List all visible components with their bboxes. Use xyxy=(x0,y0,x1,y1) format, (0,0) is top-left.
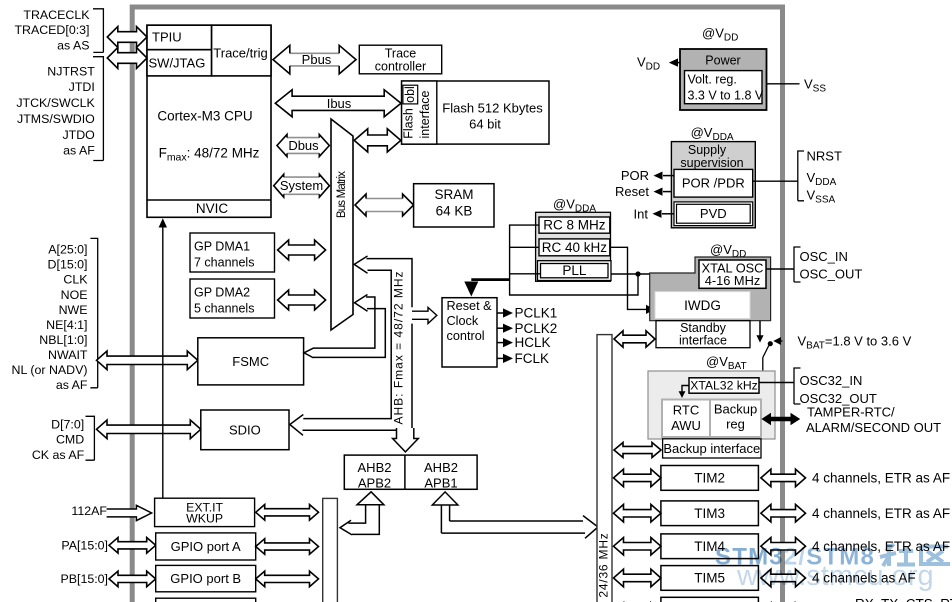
bracket NRST xyxy=(798,151,804,201)
svg-text:controller: controller xyxy=(375,59,426,73)
arrow TIM5 to APB1 xyxy=(614,569,661,587)
junction dot VBAT xyxy=(768,341,773,346)
arrow SRAM bus xyxy=(355,194,414,216)
svg-text:4-16 MHz: 4-16 MHz xyxy=(705,273,760,288)
block Power xyxy=(680,49,767,110)
svg-text:Supply: Supply xyxy=(688,143,727,157)
block XTAL OSC xyxy=(699,260,766,288)
arrow TAMPER black xyxy=(761,413,800,426)
svg-text:CLK: CLK xyxy=(63,273,88,287)
arrow Pbus xyxy=(273,45,356,74)
arrow AHB to reset clock xyxy=(412,307,437,323)
svg-text:NWE: NWE xyxy=(59,303,88,317)
bus APB1 bar xyxy=(597,335,612,602)
svg-text:Pbus: Pbus xyxy=(302,52,332,67)
block FSMC xyxy=(198,338,304,385)
block Flash 512 Kbytes xyxy=(402,81,549,144)
svg-text:NE[4:1]: NE[4:1] xyxy=(46,318,87,332)
svg-text:NBL[1:0]: NBL[1:0] xyxy=(39,333,87,347)
svg-text:PCLK1: PCLK1 xyxy=(515,306,558,321)
svg-text:AHB2: AHB2 xyxy=(358,460,392,475)
block backup domain gray xyxy=(648,371,775,439)
arrowhead FSMC tube at busmatrix xyxy=(355,295,368,312)
svg-text:PLL: PLL xyxy=(562,263,587,278)
svg-text:interface: interface xyxy=(679,333,727,347)
block TIM2 xyxy=(661,466,759,491)
wire PLL to XTAL xyxy=(611,273,651,275)
svg-text:Cortex-M3 CPU: Cortex-M3 CPU xyxy=(157,109,252,124)
svg-text:GP DMA1: GP DMA1 xyxy=(194,239,250,253)
arrow PA pins xyxy=(109,538,156,554)
svg-text:112AF: 112AF xyxy=(71,504,107,518)
arrow clock output PCLK1 xyxy=(497,312,504,314)
wire thick clock to RCC xyxy=(471,278,509,281)
block PLL xyxy=(538,261,612,281)
wire IWDG down to switch xyxy=(759,321,761,336)
block TIM4 xyxy=(661,534,759,559)
svg-text:obl: obl xyxy=(403,86,417,103)
svg-text:NJTRST: NJTRST xyxy=(47,64,95,78)
arrow clock output HCLK xyxy=(497,342,504,344)
bracket sdio pins xyxy=(86,416,95,460)
bus APB2 L-tube xyxy=(348,505,379,535)
arrowhead APB2 at bus xyxy=(340,520,352,535)
block GP DMA1 xyxy=(190,233,275,272)
svg-text:TRACECLK: TRACECLK xyxy=(23,8,90,22)
block TPIU xyxy=(147,25,212,50)
svg-text:PCLK2: PCLK2 xyxy=(515,321,558,336)
svg-text:64 bit: 64 bit xyxy=(469,117,501,132)
svg-text:System: System xyxy=(280,178,323,193)
svg-text:as AF: as AF xyxy=(56,378,88,392)
block GPIO port B xyxy=(156,565,256,591)
svg-text:Reset: Reset xyxy=(615,184,649,199)
block NVIC xyxy=(147,199,271,201)
arrow standby to APB1 xyxy=(614,331,655,347)
arrow System xyxy=(274,174,330,197)
svg-text:D[15:0]: D[15:0] xyxy=(48,258,88,272)
svg-text:5 channels: 5 channels xyxy=(194,302,254,316)
svg-text:FSMC: FSMC xyxy=(232,354,269,369)
svg-text:Flash: Flash xyxy=(402,108,416,139)
svg-text:AHB2: AHB2 xyxy=(424,460,458,475)
svg-text:NVIC: NVIC xyxy=(196,201,229,216)
svg-text:NWAIT: NWAIT xyxy=(48,348,88,362)
arrow busmatrix to flashIF xyxy=(354,129,401,152)
svg-text:Clock: Clock xyxy=(447,314,479,328)
block Supply supervision xyxy=(671,142,755,228)
svg-text:RC 8 MHz: RC 8 MHz xyxy=(543,218,606,233)
svg-text:TRACED[0:3]: TRACED[0:3] xyxy=(14,23,89,37)
block clock sources gray xyxy=(536,212,611,281)
arrowhead into RCC top xyxy=(464,282,478,297)
svg-text:JTDO: JTDO xyxy=(62,128,95,142)
svg-text:AWU: AWU xyxy=(671,418,701,433)
svg-text:RX, TX, CTS, RTS: RX, TX, CTS, RTS xyxy=(855,597,952,602)
arrow SWJTAG pins xyxy=(107,48,147,69)
block Bus Matrix xyxy=(331,119,353,330)
svg-text:www.stmcu.org: www.stmcu.org xyxy=(736,560,934,592)
bus AHB tube from matrix xyxy=(303,259,412,431)
block SDIO xyxy=(201,410,289,450)
block xtal iwdg gray xyxy=(650,257,771,321)
svg-text:ALARM/SECOND OUT: ALARM/SECOND OUT xyxy=(806,420,941,435)
arrow TIM5 pins xyxy=(761,569,806,587)
svg-text:Dbus: Dbus xyxy=(288,138,319,153)
block SRAM xyxy=(414,184,494,227)
svg-text:GP DMA2: GP DMA2 xyxy=(194,285,250,299)
svg-text:XTAL32 kHz: XTAL32 kHz xyxy=(690,378,758,392)
svg-text:D[7:0]: D[7:0] xyxy=(51,418,84,432)
wire XTAL32 to OSC32 bracket xyxy=(759,382,794,384)
block USART partial xyxy=(661,597,759,602)
bracket OSC32 pins xyxy=(794,368,801,404)
svg-text:GPIO port A: GPIO port A xyxy=(171,539,241,554)
arrow TIM3 pins xyxy=(761,504,806,522)
arrow clock output FCLK xyxy=(497,357,504,359)
svg-text:HCLK: HCLK xyxy=(515,335,551,350)
arrowhead APB2 up into bridge xyxy=(357,492,384,505)
bracket jtag pins xyxy=(93,57,103,161)
svg-text:FCLK: FCLK xyxy=(515,351,550,366)
svg-text:SRAM: SRAM xyxy=(434,187,473,202)
svg-text:TIM2: TIM2 xyxy=(694,471,725,486)
svg-text:NRST: NRST xyxy=(807,149,842,164)
svg-text:Int: Int xyxy=(634,206,649,221)
svg-text:as AS: as AS xyxy=(57,38,89,52)
svg-text:Trace/trig: Trace/trig xyxy=(213,46,267,61)
svg-text:Reset &: Reset & xyxy=(447,299,493,313)
wire RC40kHz to IWDG xyxy=(610,247,646,309)
svg-text:POR: POR xyxy=(621,168,649,183)
block TIM3 xyxy=(661,501,759,526)
svg-text:Ibus: Ibus xyxy=(327,96,352,111)
svg-text:TAMPER-RTC/: TAMPER-RTC/ xyxy=(807,405,895,420)
svg-text:CMD: CMD xyxy=(56,433,84,447)
svg-text:Bus Matrix: Bus Matrix xyxy=(336,171,348,218)
arrow AHB down into bridge xyxy=(393,428,419,452)
arrow TIM2 to APB1 xyxy=(614,469,661,487)
arrow TIM3 to APB1 xyxy=(614,504,661,522)
arrow Ibus xyxy=(275,90,401,117)
wire switch diagonal xyxy=(763,346,769,358)
block RC 40 kHz xyxy=(539,239,610,256)
wire NVIC to EXTIT xyxy=(162,227,164,498)
bracket OSC pins xyxy=(794,247,801,282)
svg-text:APB1: APB1 xyxy=(424,475,457,490)
block Trace controller xyxy=(359,45,441,74)
svg-text:3.3 V to 1.8 V: 3.3 V to 1.8 V xyxy=(688,88,764,102)
svg-text:Volt. reg.: Volt. reg. xyxy=(688,72,737,86)
chip boundary frame xyxy=(132,7,782,602)
svg-text:JTMS/SWDIO: JTMS/SWDIO xyxy=(17,112,95,126)
bus FSMC tube xyxy=(313,297,385,357)
svg-text:7 channels: 7 channels xyxy=(194,256,254,270)
svg-text:TPIU: TPIU xyxy=(152,30,182,45)
svg-text:CK as AF: CK as AF xyxy=(32,448,85,462)
arrowhead APB1 up into bridge xyxy=(432,492,458,505)
arrow FSMC pins xyxy=(97,351,198,370)
svg-text:TIM3: TIM3 xyxy=(694,506,725,521)
arrow backup to APB1 xyxy=(614,443,661,458)
svg-text:NOE: NOE xyxy=(61,288,88,302)
block Standby interface xyxy=(656,321,750,348)
arrow DMA1 bus xyxy=(278,240,326,260)
block RTC AWU Backup reg xyxy=(662,400,761,438)
svg-text:= 24/36 MHz: = 24/36 MHz xyxy=(597,532,611,602)
wire PORPDR to NRST xyxy=(753,180,798,182)
svg-text:OSC_OUT: OSC_OUT xyxy=(800,267,863,282)
wire XTAL32 to RTC xyxy=(682,386,689,393)
bracket fsmc pins xyxy=(90,238,97,387)
wire VSS xyxy=(767,83,800,85)
block GPIO port C partial xyxy=(156,598,256,602)
svg-text:A[25:0]: A[25:0] xyxy=(48,243,87,257)
svg-text:JTDI: JTDI xyxy=(69,80,95,94)
arrow EXTIT to APB2 xyxy=(256,505,319,521)
svg-text:interface: interface xyxy=(418,90,432,138)
svg-text:TIM5: TIM5 xyxy=(694,571,725,586)
svg-text:control: control xyxy=(447,329,485,343)
svg-text:Backup interface: Backup interface xyxy=(663,441,760,456)
svg-text:AHB: Fmax = 48/72 MHz: AHB: Fmax = 48/72 MHz xyxy=(391,270,405,424)
block XTAL32kHz xyxy=(689,378,759,393)
svg-text:PVD: PVD xyxy=(700,206,727,221)
arrow TPIU pins xyxy=(107,27,147,48)
svg-text:APB2: APB2 xyxy=(358,475,391,490)
block SW/JTAG xyxy=(147,50,212,76)
svg-text:POR /PDR: POR /PDR xyxy=(682,176,745,191)
svg-text:supervision: supervision xyxy=(680,156,743,170)
block TIM5 xyxy=(661,566,759,591)
arrow GPIOB to APB2 xyxy=(256,571,319,587)
svg-text:NL (or NADV): NL (or NADV) xyxy=(12,363,88,377)
svg-text:64 KB: 64 KB xyxy=(436,204,473,219)
bus APB1 L-tube xyxy=(441,505,585,533)
wire XTAL to OSC bracket xyxy=(766,268,794,270)
block AHB2 APB2 bridge xyxy=(344,455,477,489)
watermark group xyxy=(715,544,950,593)
block GPIO port A xyxy=(156,533,256,560)
svg-text:4 channels, ETR as AF: 4 channels, ETR as AF xyxy=(812,471,950,486)
block PVD xyxy=(674,202,753,226)
arrow TIM4 pins xyxy=(761,538,806,556)
svg-text:reg: reg xyxy=(726,417,745,432)
arrow Dbus xyxy=(277,135,329,157)
arrowhead FSMC tube at FSMC xyxy=(304,348,314,358)
block Trace/trig xyxy=(212,25,271,76)
junction dot PLL-XTAL xyxy=(635,271,640,276)
arrow SDIO tube lower xyxy=(303,430,402,437)
block EXT.IT WKUP xyxy=(155,498,255,526)
svg-text:OSC_IN: OSC_IN xyxy=(800,249,848,264)
wire VBAT in xyxy=(777,340,783,342)
arrow 112AF to EXTIT xyxy=(107,505,152,520)
arrowhead into IWDG xyxy=(646,305,655,314)
svg-text:4 channels, ETR as AF: 4 channels, ETR as AF xyxy=(812,506,950,521)
wire VDD arrow xyxy=(671,62,680,64)
svg-text:Power: Power xyxy=(705,54,740,68)
svg-text:JTCK/SWCLK: JTCK/SWCLK xyxy=(16,96,95,110)
block POR PDR xyxy=(674,169,753,197)
svg-text:PB[15:0]: PB[15:0] xyxy=(60,572,108,586)
block Backup interface xyxy=(663,439,761,458)
arrow PB pins xyxy=(109,571,156,587)
svg-text:as AF: as AF xyxy=(63,144,95,158)
svg-text:RTC: RTC xyxy=(673,403,699,418)
svg-text:RC 40 kHz: RC 40 kHz xyxy=(542,240,608,255)
svg-text:OSC32_IN: OSC32_IN xyxy=(800,373,863,388)
block Reset & Clock control xyxy=(442,298,497,367)
svg-text:Flash 512 Kbytes: Flash 512 Kbytes xyxy=(442,101,543,116)
arrow GPIOA to APB2 xyxy=(256,539,319,555)
wire clock sources left loop xyxy=(510,225,638,295)
svg-text:IWDG: IWDG xyxy=(684,298,721,313)
block RC 8 MHz xyxy=(539,217,610,233)
svg-text:SW/JTAG: SW/JTAG xyxy=(149,56,206,71)
svg-text:WKUP: WKUP xyxy=(186,512,223,526)
svg-text:PA[15:0]: PA[15:0] xyxy=(61,539,108,553)
svg-text:GPIO port B: GPIO port B xyxy=(170,571,241,586)
arrowhead AHB at busmatrix xyxy=(354,256,367,273)
block GP DMA2 xyxy=(190,279,275,318)
bracket trace pins xyxy=(93,9,103,53)
svg-text:Backup: Backup xyxy=(714,402,757,417)
block IWDG xyxy=(655,292,750,319)
block Volt reg xyxy=(685,71,763,104)
svg-text:Trace: Trace xyxy=(385,46,417,60)
arrow SDIO pins xyxy=(97,420,201,439)
arrow DMA2 bus xyxy=(278,290,326,310)
svg-text:SDIO: SDIO xyxy=(229,422,261,437)
block Cortex-M3 CPU xyxy=(147,25,271,217)
arrow TIM4 to APB1 xyxy=(614,538,661,556)
block flash obl interface xyxy=(402,81,437,144)
arrow TIM2 pins xyxy=(761,469,806,487)
bus APB2 bar xyxy=(323,498,338,602)
arrowhead APB1 at bus xyxy=(583,516,598,539)
arrowhead AHB at SDIO xyxy=(290,415,304,436)
arrow clock output PCLK2 xyxy=(497,327,504,329)
